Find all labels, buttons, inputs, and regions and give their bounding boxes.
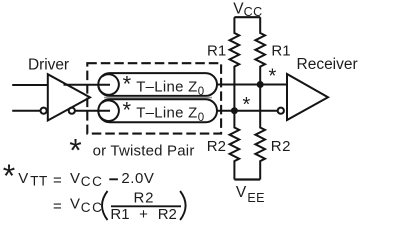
label R1 right — [271, 43, 290, 60]
inversion bubble driver output — [69, 108, 75, 114]
svg-text:0: 0 — [198, 112, 204, 124]
inversion bubble receiver input — [278, 108, 284, 114]
formula line 1: VTT = VCC - 2.0V — [18, 170, 154, 189]
svg-text:CC: CC — [81, 200, 104, 215]
dashed enclosure box — [87, 63, 221, 133]
svg-text:V: V — [236, 184, 247, 201]
label R2 right — [271, 138, 291, 155]
junction dot top line — [257, 81, 264, 88]
svg-text:*: * — [269, 66, 277, 88]
svg-text:2.0V: 2.0V — [121, 170, 154, 187]
svg-text:EE: EE — [247, 191, 264, 205]
svg-text:0: 0 — [198, 86, 204, 98]
svg-text:TT: TT — [30, 174, 48, 189]
resistor R1 left and resistor R2 left column — [230, 17, 240, 179]
label VEE — [236, 184, 265, 205]
transmission line T2 body — [98, 99, 217, 122]
svg-text:R2: R2 — [271, 138, 291, 155]
svg-text:*: * — [69, 133, 81, 169]
fraction bar — [111, 205, 181, 207]
label R2 left — [207, 138, 226, 155]
svg-text:CC: CC — [244, 5, 263, 19]
transmission line T2 end cap — [98, 100, 119, 121]
wire driver input bottom — [12, 110, 40, 112]
svg-text:V: V — [233, 0, 244, 17]
open parenthesis — [102, 191, 108, 220]
transmission line T1 end cap — [98, 74, 119, 95]
svg-text:=: = — [53, 198, 62, 215]
svg-text:T–Line Z: T–Line Z — [136, 105, 197, 122]
svg-text:Receiver: Receiver — [297, 56, 358, 73]
wire driver output bottom — [75, 110, 110, 112]
svg-text:R2: R2 — [207, 138, 226, 155]
label T-Line Z0 bottom — [136, 105, 204, 125]
svg-text:R2: R2 — [134, 189, 155, 206]
transmission line T1 body — [98, 73, 217, 96]
label VCC — [233, 0, 262, 19]
label T-Line Z0 top — [136, 79, 204, 99]
close parenthesis — [180, 191, 186, 220]
svg-text:Driver: Driver — [28, 57, 69, 74]
Vee rail — [234, 178, 260, 180]
junction dot bottom line — [231, 107, 238, 114]
asterisk formula note — [3, 158, 15, 194]
asterisk in T1 — [123, 72, 132, 97]
label Receiver — [297, 56, 358, 73]
svg-text:R1: R1 — [271, 43, 290, 60]
svg-text:*: * — [243, 94, 251, 116]
wire driver output top — [64, 84, 111, 86]
svg-text:T–Line Z: T–Line Z — [136, 79, 197, 96]
svg-text:*: * — [3, 158, 15, 194]
asterisk termination node middle — [243, 94, 251, 116]
svg-text:+: + — [139, 206, 148, 223]
svg-text:R1: R1 — [207, 42, 226, 59]
svg-text:R2: R2 — [158, 206, 177, 223]
asterisk twisted pair note — [69, 133, 81, 169]
Vcc rail — [234, 16, 260, 18]
svg-text:V: V — [70, 170, 80, 187]
svg-text:or Twisted Pair: or Twisted Pair — [93, 143, 195, 160]
label or Twisted Pair — [93, 143, 195, 160]
label R1 left — [207, 42, 226, 59]
shared edge shading between T1 and T2 — [104, 97, 212, 99]
inversion bubble driver input — [41, 108, 47, 114]
svg-text:V: V — [70, 196, 80, 213]
svg-text:*: * — [123, 98, 132, 123]
label Driver — [28, 57, 69, 74]
minus sign — [109, 178, 118, 180]
asterisk in T2 — [123, 98, 132, 123]
svg-text:=: = — [53, 172, 62, 189]
svg-text:V: V — [18, 170, 28, 187]
wire line bottom right — [217, 110, 278, 112]
svg-text:R1: R1 — [110, 206, 129, 223]
resistor R1 right and resistor R2 right column — [255, 17, 265, 179]
wire line top right — [217, 84, 287, 86]
svg-text:*: * — [123, 72, 132, 97]
receiver buffer U2 — [287, 74, 328, 120]
driver buffer U1 — [48, 74, 90, 120]
svg-text:CC: CC — [81, 174, 104, 189]
wire driver input top — [12, 84, 48, 86]
asterisk termination node top — [269, 66, 277, 88]
formula line 2: = VCC ( R2 / R1 + R2 ) — [53, 189, 177, 223]
